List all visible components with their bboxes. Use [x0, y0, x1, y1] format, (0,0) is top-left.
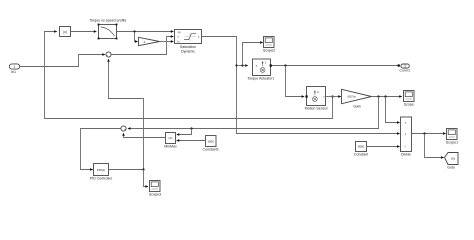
svg-text:|u|: |u| [63, 30, 67, 34]
wire Saturation out, torque line down to Divide middle input [202, 37, 400, 134]
sum Sum1 [106, 52, 111, 59]
svg-text:Constant1: Constant1 [203, 147, 219, 151]
block Constant 9550 [354, 142, 368, 157]
wire J2 speed to Divide top input [386, 97, 400, 123]
wire Abs to lookup table [71, 31, 97, 33]
svg-text:x: x [405, 132, 407, 136]
block Saturation Dynamic [175, 30, 202, 54]
junction J1 [377, 95, 379, 97]
wire PID out up to Sum1 [109, 59, 144, 169]
block lookup table Torque vs speed profile [89, 19, 126, 40]
wire speed feedback to Abs [45, 32, 333, 119]
svg-text:up: up [178, 31, 181, 34]
block Constant1 1500 [203, 136, 219, 152]
svg-text:T: T [255, 64, 257, 68]
svg-text:Scope3: Scope3 [149, 192, 161, 196]
svg-text:Saturation: Saturation [180, 45, 196, 49]
wire lookup to Saturation up input [117, 31, 174, 33]
svg-text:[A]: [A] [451, 157, 455, 161]
svg-text:Divide: Divide [401, 153, 411, 157]
svg-text:MinMax: MinMax [164, 145, 177, 149]
wire riser to Scope2 [243, 43, 263, 66]
svg-text:1: 1 [265, 60, 267, 64]
wire sensor out to Gain [326, 96, 341, 98]
block Scope2 [263, 37, 275, 53]
svg-text:PID(s): PID(s) [97, 168, 105, 172]
junction on physical line [284, 64, 286, 66]
svg-text:60/2*pi: 60/2*pi [348, 95, 357, 99]
svg-text:1: 1 [14, 65, 16, 69]
junction to MinMax [190, 127, 192, 129]
wire Sum2 out to PID [81, 129, 121, 170]
wire branch to MinMax top input [177, 129, 192, 135]
wire Constant to Divide [367, 146, 400, 148]
wire Constant1 to MinMax bottom input [177, 140, 206, 142]
wire branch to Goto [425, 134, 444, 158]
junction on sensor line [331, 95, 333, 97]
svg-text:PID Controller: PID Controller [90, 177, 113, 181]
block MinMax [164, 133, 177, 149]
svg-text:Torque Actuator1: Torque Actuator1 [247, 77, 274, 81]
svg-text:w: w [317, 91, 319, 94]
svg-text:u: u [178, 36, 180, 39]
svg-text:x: x [405, 121, 407, 125]
svg-text:÷: ÷ [404, 145, 406, 149]
junction PID out [142, 168, 144, 170]
svg-text:Gain: Gain [353, 105, 361, 109]
junction J2 [384, 95, 386, 97]
block Divide [401, 117, 412, 157]
wire branch down to Motion Sensor [286, 66, 305, 97]
svg-text:9550: 9550 [358, 145, 365, 149]
svg-text:Scope: Scope [404, 102, 414, 106]
svg-text:Scope1: Scope1 [446, 140, 458, 144]
svg-text:Dynamic: Dynamic [181, 50, 195, 54]
svg-text:Torque vs speed profile: Torque vs speed profile [89, 19, 126, 23]
junction torque line to actuator [235, 64, 237, 66]
wire In1 to Sum1 [20, 55, 105, 67]
svg-text:lo: lo [178, 41, 181, 44]
gain -1 [139, 37, 160, 45]
block Scope [404, 91, 415, 107]
svg-text:Goto: Goto [447, 165, 455, 169]
svg-text:y: y [198, 36, 200, 39]
block Scope3 [149, 181, 161, 197]
wire junction to gain -1 [135, 32, 138, 42]
sum Sum2 [121, 126, 126, 133]
wire MinMax out to Sum2 [124, 133, 166, 137]
wire Divide out to Scope1 [412, 133, 446, 135]
junction actuator feed to scope2 riser [241, 64, 243, 66]
block Torque Actuator1 [247, 59, 274, 81]
svg-text:Motion Sensor: Motion Sensor [305, 106, 329, 110]
block Scope1 [446, 129, 458, 145]
block Motion Sensor [305, 87, 329, 111]
wire branch to Scope3 [144, 170, 149, 187]
svg-text:-1: -1 [143, 40, 146, 44]
wire gain -1 to Saturation lo input [160, 41, 174, 43]
junction branch to -1 gain [133, 30, 135, 32]
wire J1 speed feedback to Sum2 [128, 97, 379, 129]
wire branch to Torque Actuator1 input [237, 65, 248, 67]
gain 60/2pi [342, 89, 372, 108]
wire actuator to Conn1 physical line [272, 65, 400, 67]
svg-text:min: min [168, 136, 173, 140]
input port In1 [9, 64, 19, 74]
svg-text:Scope2: Scope2 [263, 48, 275, 52]
svg-text:In1: In1 [11, 70, 16, 74]
port Conn1 [397, 64, 410, 73]
svg-text:v: v [323, 96, 325, 99]
junction divide out [423, 132, 425, 134]
block PID Controller [90, 164, 113, 181]
wire Sum1 to Saturation u input [111, 37, 173, 55]
wire Gain out to Scope [372, 96, 402, 98]
svg-text:Conn1: Conn1 [399, 69, 410, 73]
svg-text:Constant: Constant [354, 153, 368, 157]
svg-text:1500: 1500 [207, 139, 214, 143]
goto tag Goto [445, 153, 459, 170]
svg-text:-: - [122, 129, 123, 133]
block Abs [60, 27, 71, 37]
